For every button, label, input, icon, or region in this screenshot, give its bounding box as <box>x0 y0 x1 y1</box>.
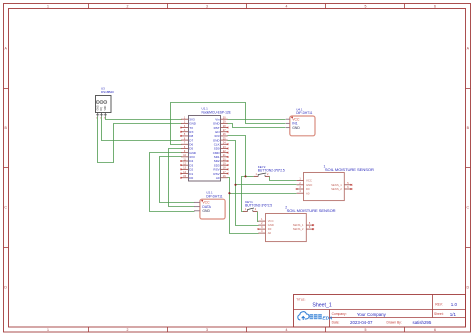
svg-text:VCC: VCC <box>202 201 210 205</box>
svg-text:Date:: Date: <box>332 320 340 324</box>
svg-text:D1: D1 <box>189 172 193 176</box>
svg-text:D3: D3 <box>189 163 193 167</box>
svg-text:SD3: SD3 <box>214 163 220 167</box>
svg-text:D7: D7 <box>189 138 193 142</box>
svg-text:DQ: DQ <box>101 107 103 111</box>
svg-text:4: 4 <box>286 4 288 8</box>
svg-text:SD1: SD1 <box>214 155 220 159</box>
svg-text:5: 5 <box>365 4 367 8</box>
svg-text:GND: GND <box>268 223 274 227</box>
svg-text:GND: GND <box>189 151 197 155</box>
svg-text:GND: GND <box>202 209 210 213</box>
svg-text:DS18B20: DS18B20 <box>101 90 114 94</box>
svg-text:RSV: RSV <box>213 168 219 172</box>
svg-text:SD2: SD2 <box>214 159 220 163</box>
svg-text:TX: TX <box>189 126 193 130</box>
svg-text:Your Company: Your Company <box>357 312 387 317</box>
svg-text:1.0: 1.0 <box>451 302 458 307</box>
svg-text:1: 1 <box>47 4 49 8</box>
svg-text:A0: A0 <box>268 231 272 235</box>
svg-text:EN: EN <box>215 130 219 134</box>
svg-text:Company:: Company: <box>332 312 347 316</box>
svg-text:SENS_2: SENS_2 <box>293 227 304 231</box>
svg-text:D8: D8 <box>189 134 193 138</box>
svg-text:EDA: EDA <box>322 315 333 321</box>
svg-text:GND: GND <box>292 126 300 130</box>
svg-text:RST: RST <box>214 126 220 130</box>
svg-text:2: 2 <box>127 4 129 8</box>
svg-text:Sheet:: Sheet: <box>434 312 444 316</box>
svg-text:Sheet_1: Sheet_1 <box>312 302 331 308</box>
svg-text:4: 4 <box>286 328 288 332</box>
svg-text:RSV: RSV <box>213 172 219 176</box>
svg-text:SENS_2: SENS_2 <box>331 187 342 191</box>
svg-text:2023-04-07: 2023-04-07 <box>350 320 373 325</box>
svg-text:6: 6 <box>434 4 436 8</box>
svg-text:CMD: CMD <box>213 151 221 155</box>
svg-text:GND: GND <box>213 138 221 142</box>
svg-text:VCC: VCC <box>268 219 274 223</box>
svg-text:BUTTON2-3*6*2.5: BUTTON2-3*6*2.5 <box>258 168 285 172</box>
svg-text:DATA: DATA <box>202 205 211 209</box>
svg-text:VDD: VDD <box>105 105 107 110</box>
svg-text:A0: A0 <box>216 176 220 180</box>
svg-text:IN1: IN1 <box>292 122 297 126</box>
svg-text:BUTTON2-3*6*2.5: BUTTON2-3*6*2.5 <box>245 203 272 207</box>
svg-text:5: 5 <box>365 328 367 332</box>
svg-text:1/1: 1/1 <box>450 312 457 317</box>
svg-text:DIP-DHT11: DIP-DHT11 <box>296 111 312 115</box>
svg-text:SD0: SD0 <box>214 147 220 151</box>
svg-text:A0: A0 <box>306 191 310 195</box>
svg-text:GND: GND <box>97 105 99 110</box>
svg-text:D0: D0 <box>189 176 193 180</box>
svg-text:Drawn By:: Drawn By: <box>387 320 402 324</box>
svg-text:D2: D2 <box>189 168 193 172</box>
svg-text:Vin: Vin <box>215 117 220 121</box>
svg-text:VCC: VCC <box>306 179 312 183</box>
svg-text:satish295: satish295 <box>413 320 432 325</box>
svg-text:U1.1: U1.1 <box>202 106 209 110</box>
svg-text:TITLE:: TITLE: <box>296 297 305 301</box>
svg-text:6: 6 <box>434 328 436 332</box>
svg-text:3V3: 3V3 <box>189 117 195 121</box>
svg-text:SOIL MOISTURE SENSOR: SOIL MOISTURE SENSOR <box>287 208 336 213</box>
svg-text:3: 3 <box>206 328 208 332</box>
svg-text:D6: D6 <box>189 143 193 147</box>
svg-text:D4: D4 <box>189 159 193 163</box>
svg-text:CLK: CLK <box>214 143 220 147</box>
svg-text:SENS_1: SENS_1 <box>293 223 304 227</box>
svg-text:D5: D5 <box>189 147 193 151</box>
svg-text:GND: GND <box>306 183 312 187</box>
svg-text:VCC: VCC <box>292 118 300 122</box>
svg-text:GND: GND <box>213 122 221 126</box>
svg-text:DIP-DHT11: DIP-DHT11 <box>206 194 222 198</box>
svg-text:3V3: 3V3 <box>214 134 220 138</box>
svg-text:SOIL MOISTURE SENSOR: SOIL MOISTURE SENSOR <box>325 167 374 172</box>
svg-text:REV:: REV: <box>435 303 443 307</box>
svg-text:NodeMCU-ESP-12E: NodeMCU-ESP-12E <box>202 111 232 115</box>
svg-text:D0: D0 <box>306 187 310 191</box>
svg-text:SENS_1: SENS_1 <box>331 183 342 187</box>
svg-text:RX: RX <box>189 130 193 134</box>
svg-text:2: 2 <box>127 328 129 332</box>
svg-text:3: 3 <box>206 4 208 8</box>
svg-text:3V3: 3V3 <box>189 155 195 159</box>
svg-text:1: 1 <box>47 328 49 332</box>
svg-text:D0: D0 <box>268 227 272 231</box>
svg-text:GND: GND <box>189 122 197 126</box>
